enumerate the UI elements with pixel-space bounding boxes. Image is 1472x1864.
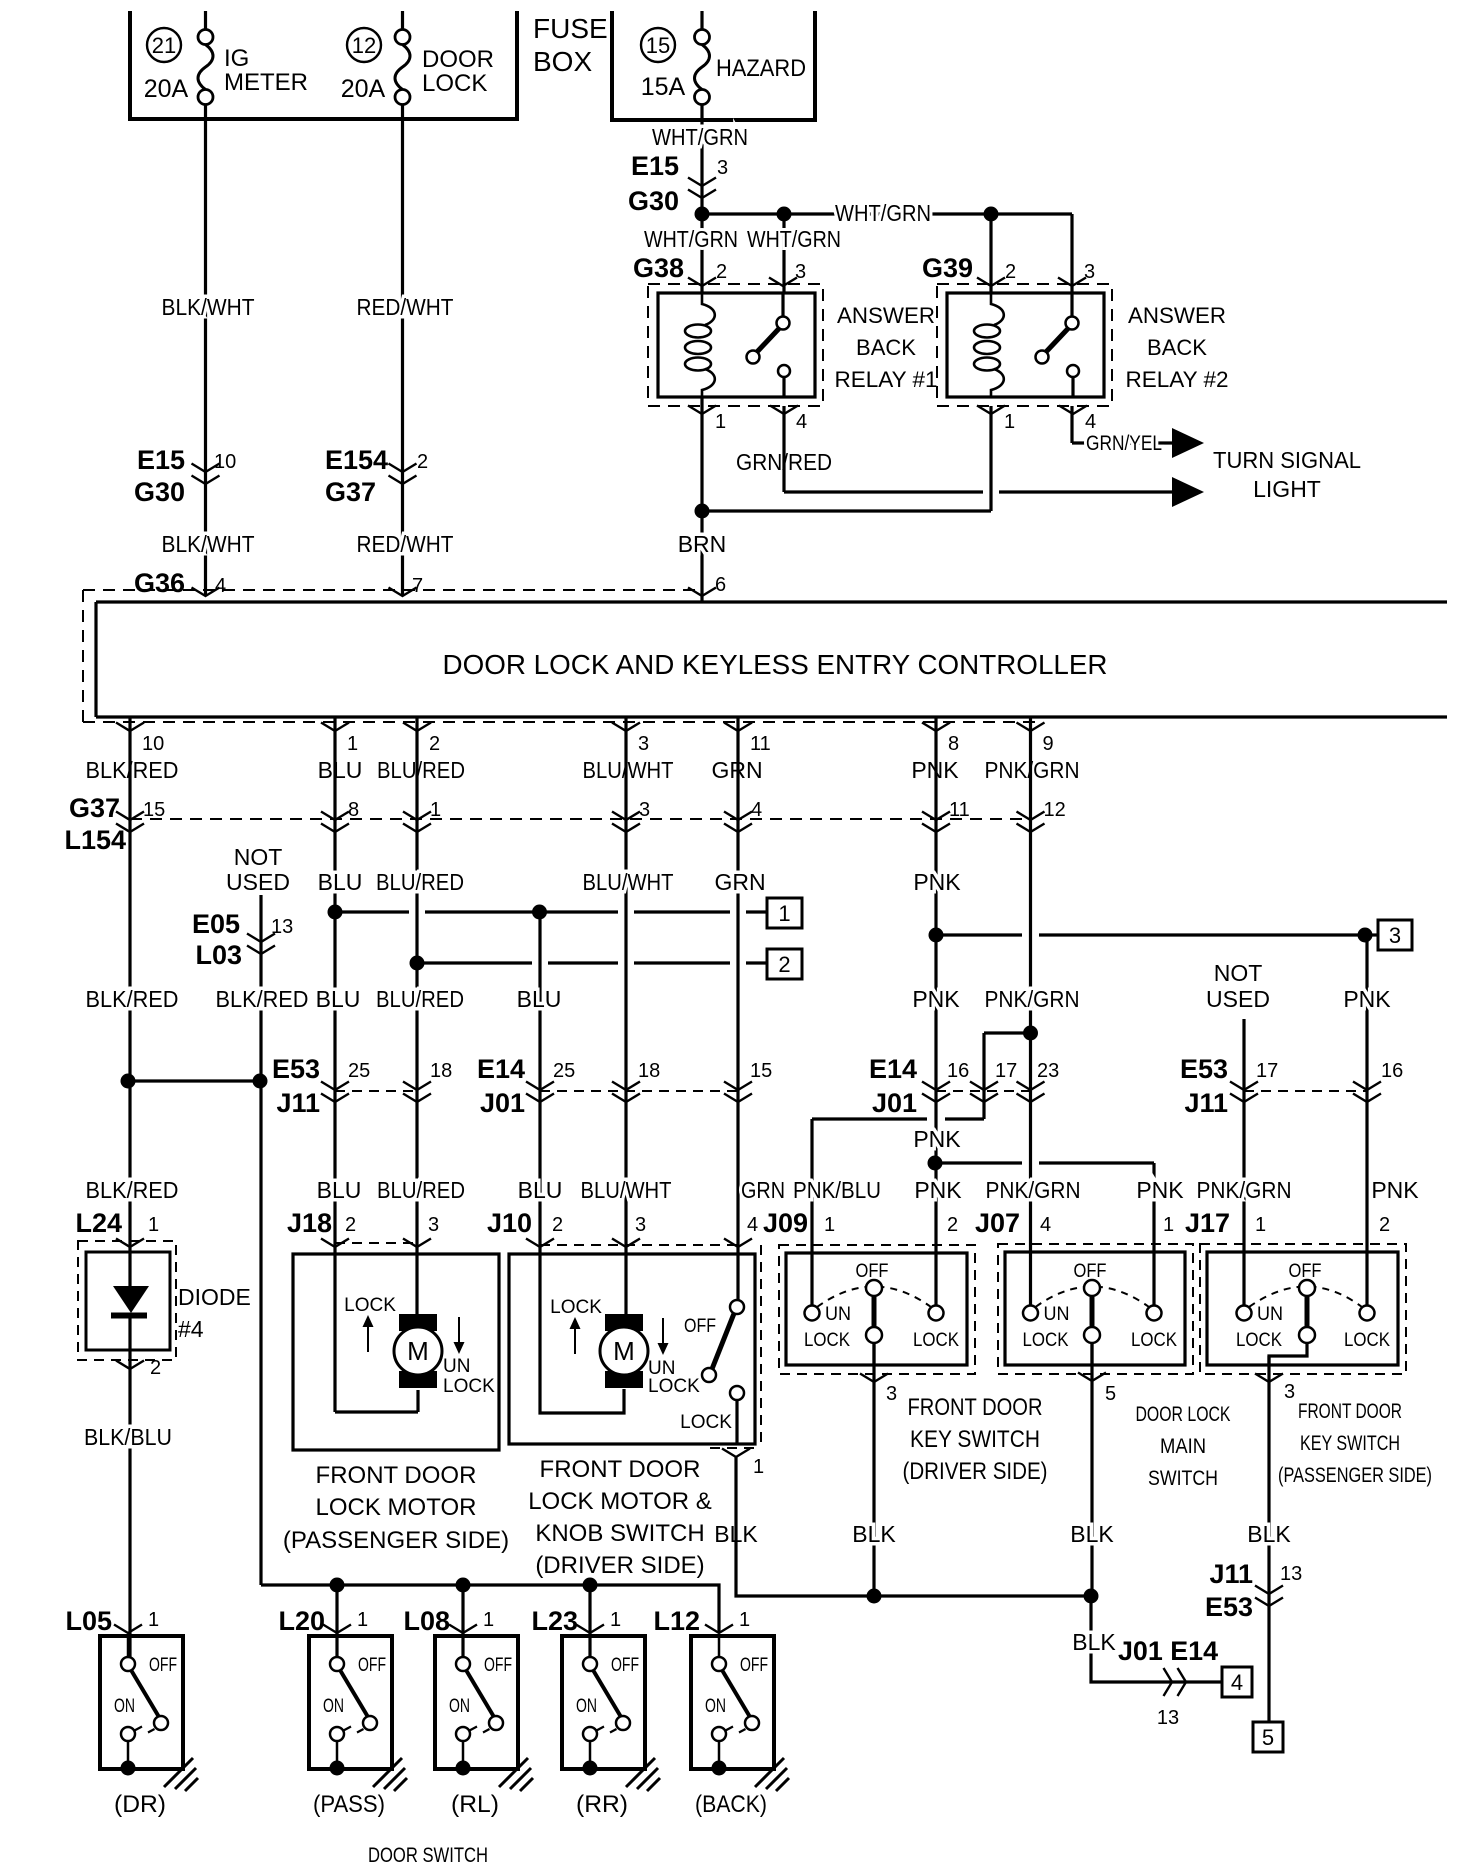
svg-text:BLU/RED: BLU/RED <box>377 757 465 783</box>
svg-text:ANSWER: ANSWER <box>837 303 935 328</box>
svg-text:BLU/RED: BLU/RED <box>376 986 464 1012</box>
svg-text:BOX: BOX <box>533 46 592 77</box>
svg-text:UN: UN <box>443 1356 470 1377</box>
svg-text:KEY SWITCH: KEY SWITCH <box>1300 1432 1400 1455</box>
svg-text:5: 5 <box>1262 1725 1274 1750</box>
svg-text:G37: G37 <box>325 477 376 507</box>
svg-text:OFF: OFF <box>1074 1261 1107 1282</box>
svg-text:G36: G36 <box>134 568 185 598</box>
svg-text:1: 1 <box>1163 1214 1174 1236</box>
svg-text:15A: 15A <box>641 73 686 101</box>
svg-text:PNK: PNK <box>913 869 961 895</box>
svg-text:WHT/GRN: WHT/GRN <box>644 226 738 252</box>
svg-text:TURN SIGNAL: TURN SIGNAL <box>1213 447 1361 473</box>
svg-text:UN: UN <box>1257 1304 1283 1325</box>
svg-text:25: 25 <box>348 1060 370 1082</box>
svg-text:OFF: OFF <box>484 1655 512 1676</box>
svg-text:LOCK: LOCK <box>1131 1330 1177 1351</box>
svg-text:BLU: BLU <box>318 869 363 895</box>
svg-text:2: 2 <box>552 1214 563 1236</box>
svg-text:LOCK: LOCK <box>1023 1330 1069 1351</box>
svg-text:(PASSENGER SIDE): (PASSENGER SIDE) <box>1278 1464 1432 1487</box>
svg-text:E53: E53 <box>272 1054 320 1084</box>
svg-text:USED: USED <box>1206 986 1270 1012</box>
svg-text:L05: L05 <box>65 1606 112 1636</box>
svg-text:BLK/WHT: BLK/WHT <box>162 531 255 557</box>
svg-text:18: 18 <box>638 1060 660 1082</box>
svg-text:6: 6 <box>715 574 726 596</box>
svg-text:2: 2 <box>947 1214 958 1236</box>
svg-text:2: 2 <box>150 1357 161 1379</box>
svg-text:IG: IG <box>224 45 249 72</box>
svg-text:(DRIVER SIDE): (DRIVER SIDE) <box>535 1552 704 1579</box>
svg-text:3: 3 <box>795 261 806 283</box>
svg-text:10: 10 <box>214 451 236 473</box>
svg-text:J11: J11 <box>1184 1088 1228 1118</box>
svg-text:(DR): (DR) <box>114 1791 166 1818</box>
svg-text:12: 12 <box>1044 799 1066 821</box>
svg-text:OFF: OFF <box>1289 1261 1322 1282</box>
svg-text:LIGHT: LIGHT <box>1253 476 1321 502</box>
svg-text:2: 2 <box>345 1214 356 1236</box>
svg-text:15: 15 <box>646 33 670 58</box>
svg-text:3: 3 <box>635 1214 646 1236</box>
svg-text:G30: G30 <box>134 477 185 507</box>
svg-text:LOCK: LOCK <box>344 1295 396 1316</box>
svg-text:1: 1 <box>148 1214 159 1236</box>
svg-text:USED: USED <box>226 869 290 895</box>
svg-text:FRONT DOOR: FRONT DOOR <box>1298 1400 1402 1423</box>
svg-text:J10: J10 <box>487 1208 532 1238</box>
svg-text:L23: L23 <box>531 1606 578 1636</box>
svg-text:1: 1 <box>1004 411 1015 433</box>
svg-text:LOCK: LOCK <box>443 1376 495 1397</box>
svg-text:BLU: BLU <box>316 986 361 1012</box>
svg-text:3: 3 <box>428 1214 439 1236</box>
svg-text:LOCK: LOCK <box>1236 1330 1282 1351</box>
svg-text:16: 16 <box>947 1060 969 1082</box>
svg-text:ANSWER: ANSWER <box>1128 303 1226 328</box>
svg-text:PNK: PNK <box>912 986 960 1012</box>
svg-text:1: 1 <box>753 1456 764 1478</box>
svg-text:BLU: BLU <box>317 1177 362 1203</box>
svg-text:E154: E154 <box>325 445 388 475</box>
svg-text:SWITCH: SWITCH <box>1148 1467 1218 1490</box>
svg-text:G39: G39 <box>922 253 973 283</box>
svg-text:1: 1 <box>357 1609 368 1631</box>
svg-text:LOCK: LOCK <box>422 70 487 97</box>
svg-text:2: 2 <box>778 952 790 977</box>
svg-text:4: 4 <box>747 1214 758 1236</box>
svg-text:G30: G30 <box>628 186 679 216</box>
svg-text:13: 13 <box>1157 1707 1179 1729</box>
svg-text:15: 15 <box>750 1060 772 1082</box>
svg-text:5: 5 <box>1105 1383 1116 1405</box>
svg-text:NOT: NOT <box>1214 960 1263 986</box>
svg-text:1: 1 <box>610 1609 621 1631</box>
svg-text:2: 2 <box>417 451 428 473</box>
svg-text:M: M <box>407 1336 429 1366</box>
svg-text:BLK/WHT: BLK/WHT <box>162 294 255 320</box>
svg-text:METER: METER <box>224 69 308 96</box>
svg-text:DOOR LOCK AND KEYLESS ENTRY CO: DOOR LOCK AND KEYLESS ENTRY CONTROLLER <box>443 649 1108 680</box>
svg-text:ON: ON <box>114 1696 135 1717</box>
svg-text:1: 1 <box>430 799 441 821</box>
svg-text:DOOR SWITCH: DOOR SWITCH <box>368 1844 488 1864</box>
svg-text:ON: ON <box>705 1696 726 1717</box>
svg-text:LOCK: LOCK <box>1344 1330 1390 1351</box>
svg-text:GRN/YEL: GRN/YEL <box>1086 432 1162 455</box>
svg-text:3: 3 <box>1389 923 1401 948</box>
svg-text:WHT/GRN: WHT/GRN <box>747 226 841 252</box>
svg-text:23: 23 <box>1037 1060 1059 1082</box>
svg-text:BLU: BLU <box>517 986 562 1012</box>
svg-text:4: 4 <box>751 799 762 821</box>
svg-text:3: 3 <box>717 157 728 179</box>
svg-text:3: 3 <box>1084 261 1095 283</box>
svg-text:L08: L08 <box>403 1606 450 1636</box>
svg-text:1: 1 <box>347 733 358 755</box>
svg-text:21: 21 <box>152 33 176 58</box>
svg-text:13: 13 <box>1280 1563 1302 1585</box>
svg-text:2: 2 <box>1379 1214 1390 1236</box>
svg-text:BACK: BACK <box>856 335 916 360</box>
svg-text:J01 E14: J01 E14 <box>1118 1636 1218 1666</box>
svg-text:FRONT DOOR: FRONT DOOR <box>540 1456 701 1483</box>
svg-text:BLU/WHT: BLU/WHT <box>581 1177 672 1203</box>
svg-text:BLU/RED: BLU/RED <box>376 869 464 895</box>
svg-text:9: 9 <box>1043 733 1054 755</box>
svg-text:OFF: OFF <box>358 1655 386 1676</box>
svg-text:8: 8 <box>348 799 359 821</box>
svg-text:BACK: BACK <box>1147 335 1207 360</box>
svg-text:PNK: PNK <box>913 1126 961 1152</box>
svg-text:17: 17 <box>1256 1060 1278 1082</box>
svg-text:J17: J17 <box>1185 1208 1230 1238</box>
svg-text:BLU: BLU <box>318 757 363 783</box>
svg-text:15: 15 <box>143 799 165 821</box>
svg-text:(BACK): (BACK) <box>695 1791 767 1818</box>
svg-text:11: 11 <box>949 799 970 821</box>
svg-text:FRONT DOOR: FRONT DOOR <box>316 1462 477 1489</box>
svg-text:OFF: OFF <box>684 1316 716 1337</box>
svg-text:8: 8 <box>948 733 959 755</box>
svg-text:E14: E14 <box>869 1054 917 1084</box>
svg-text:OFF: OFF <box>149 1655 177 1676</box>
svg-text:MAIN: MAIN <box>1160 1435 1206 1458</box>
svg-text:2: 2 <box>716 261 727 283</box>
svg-text:L24: L24 <box>75 1208 122 1238</box>
svg-text:4: 4 <box>1231 1670 1243 1695</box>
svg-text:DOOR: DOOR <box>422 46 494 73</box>
svg-text:3: 3 <box>638 733 649 755</box>
svg-text:DOOR LOCK: DOOR LOCK <box>1136 1403 1231 1426</box>
svg-text:G38: G38 <box>633 253 684 283</box>
svg-text:L20: L20 <box>278 1606 325 1636</box>
svg-text:(PASSENGER SIDE): (PASSENGER SIDE) <box>283 1527 509 1554</box>
svg-text:FUSE: FUSE <box>533 13 608 44</box>
svg-text:11: 11 <box>750 733 771 755</box>
svg-text:7: 7 <box>412 575 423 597</box>
svg-text:LOCK MOTOR: LOCK MOTOR <box>316 1494 477 1521</box>
svg-text:BLK: BLK <box>852 1521 896 1547</box>
svg-text:BLK/RED: BLK/RED <box>86 1177 179 1203</box>
svg-text:J11: J11 <box>276 1088 320 1118</box>
svg-text:LOCK MOTOR &: LOCK MOTOR & <box>528 1488 712 1515</box>
svg-text:L12: L12 <box>653 1606 700 1636</box>
svg-text:BLK: BLK <box>1072 1629 1116 1655</box>
svg-text:2: 2 <box>1005 261 1016 283</box>
svg-text:UN: UN <box>1044 1304 1070 1325</box>
svg-text:(RR): (RR) <box>576 1791 628 1818</box>
svg-text:LOCK: LOCK <box>913 1330 959 1351</box>
svg-text:BLU/RED: BLU/RED <box>377 1177 465 1203</box>
svg-text:1: 1 <box>824 1214 835 1236</box>
svg-text:BLU/WHT: BLU/WHT <box>583 869 674 895</box>
svg-text:KEY SWITCH: KEY SWITCH <box>910 1426 1040 1453</box>
svg-text:#4: #4 <box>178 1316 204 1342</box>
svg-text:E53: E53 <box>1180 1054 1228 1084</box>
svg-text:BLK: BLK <box>1247 1521 1291 1547</box>
svg-text:HAZARD: HAZARD <box>716 55 806 82</box>
svg-text:1: 1 <box>715 411 726 433</box>
svg-text:BLK: BLK <box>1070 1521 1114 1547</box>
svg-text:E14: E14 <box>477 1054 525 1084</box>
svg-text:BLU: BLU <box>518 1177 563 1203</box>
svg-text:RED/WHT: RED/WHT <box>357 531 454 557</box>
svg-text:LOCK: LOCK <box>550 1297 602 1318</box>
svg-text:1: 1 <box>483 1609 494 1631</box>
svg-text:UN: UN <box>825 1304 851 1325</box>
svg-text:PNK/BLU: PNK/BLU <box>793 1177 881 1203</box>
svg-text:L03: L03 <box>195 940 242 970</box>
svg-text:GRN: GRN <box>741 1177 785 1203</box>
svg-text:E05: E05 <box>192 909 240 939</box>
svg-text:BLU/WHT: BLU/WHT <box>583 757 674 783</box>
svg-text:12: 12 <box>352 33 376 58</box>
svg-text:BLK/RED: BLK/RED <box>86 986 179 1012</box>
svg-text:J07: J07 <box>975 1208 1020 1238</box>
svg-text:20A: 20A <box>341 75 386 103</box>
svg-text:J11: J11 <box>1209 1559 1253 1589</box>
svg-text:1: 1 <box>778 901 790 926</box>
svg-text:RELAY #2: RELAY #2 <box>1126 367 1229 392</box>
svg-text:3: 3 <box>886 1383 897 1405</box>
svg-text:E15: E15 <box>137 445 185 475</box>
svg-text:G37: G37 <box>69 793 120 823</box>
svg-text:BLK/RED: BLK/RED <box>86 757 179 783</box>
svg-text:4: 4 <box>1040 1214 1051 1236</box>
svg-text:J01: J01 <box>480 1088 525 1118</box>
svg-text:BLK/RED: BLK/RED <box>216 986 309 1012</box>
svg-text:OFF: OFF <box>611 1655 639 1676</box>
svg-text:3: 3 <box>639 799 650 821</box>
svg-text:PNK: PNK <box>1136 1177 1184 1203</box>
svg-text:OFF: OFF <box>740 1655 768 1676</box>
svg-text:OFF: OFF <box>856 1261 889 1282</box>
svg-text:KNOB SWITCH: KNOB SWITCH <box>535 1520 704 1547</box>
svg-text:3: 3 <box>1284 1381 1295 1403</box>
svg-text:1: 1 <box>148 1609 159 1631</box>
svg-text:L154: L154 <box>64 825 126 855</box>
svg-text:J18: J18 <box>287 1208 332 1238</box>
svg-text:1: 1 <box>1255 1214 1266 1236</box>
svg-text:LOCK: LOCK <box>648 1376 700 1397</box>
svg-text:NOT: NOT <box>234 844 283 870</box>
svg-text:RED/WHT: RED/WHT <box>357 294 454 320</box>
svg-text:LOCK: LOCK <box>680 1412 732 1433</box>
svg-text:E53: E53 <box>1205 1592 1253 1622</box>
svg-text:16: 16 <box>1381 1060 1403 1082</box>
svg-text:18: 18 <box>430 1060 452 1082</box>
svg-text:ON: ON <box>576 1696 597 1717</box>
svg-text:17: 17 <box>995 1060 1017 1082</box>
svg-text:20A: 20A <box>144 75 189 103</box>
svg-text:2: 2 <box>429 733 440 755</box>
svg-text:PNK: PNK <box>914 1177 962 1203</box>
svg-text:4: 4 <box>1085 411 1096 433</box>
svg-text:WHT/GRN: WHT/GRN <box>652 124 748 150</box>
svg-text:DIODE: DIODE <box>178 1284 251 1310</box>
svg-text:25: 25 <box>553 1060 575 1082</box>
svg-text:GRN: GRN <box>714 869 765 895</box>
svg-text:BLK/BLU: BLK/BLU <box>84 1424 172 1450</box>
svg-text:ON: ON <box>449 1696 470 1717</box>
svg-text:PNK: PNK <box>1371 1177 1419 1203</box>
svg-text:FRONT DOOR: FRONT DOOR <box>908 1394 1043 1421</box>
svg-text:PNK/GRN: PNK/GRN <box>985 986 1080 1012</box>
svg-text:M: M <box>613 1336 635 1366</box>
svg-text:ON: ON <box>323 1696 344 1717</box>
svg-text:(RL): (RL) <box>451 1791 499 1818</box>
svg-text:LOCK: LOCK <box>804 1330 850 1351</box>
svg-text:BRN: BRN <box>678 531 727 557</box>
svg-text:RELAY #1: RELAY #1 <box>835 367 938 392</box>
svg-text:E15: E15 <box>631 151 679 181</box>
svg-text:J01: J01 <box>872 1088 917 1118</box>
svg-text:10: 10 <box>142 733 164 755</box>
svg-text:J09: J09 <box>763 1208 808 1238</box>
svg-text:(DRIVER SIDE): (DRIVER SIDE) <box>903 1458 1048 1485</box>
svg-text:PNK/GRN: PNK/GRN <box>1197 1177 1292 1203</box>
svg-text:4: 4 <box>796 411 807 433</box>
svg-text:(PASS): (PASS) <box>313 1791 385 1818</box>
svg-text:WHT/GRN: WHT/GRN <box>835 200 931 226</box>
svg-text:PNK: PNK <box>1343 986 1391 1012</box>
svg-text:1: 1 <box>739 1609 750 1631</box>
svg-text:4: 4 <box>215 575 226 597</box>
svg-text:PNK/GRN: PNK/GRN <box>986 1177 1081 1203</box>
